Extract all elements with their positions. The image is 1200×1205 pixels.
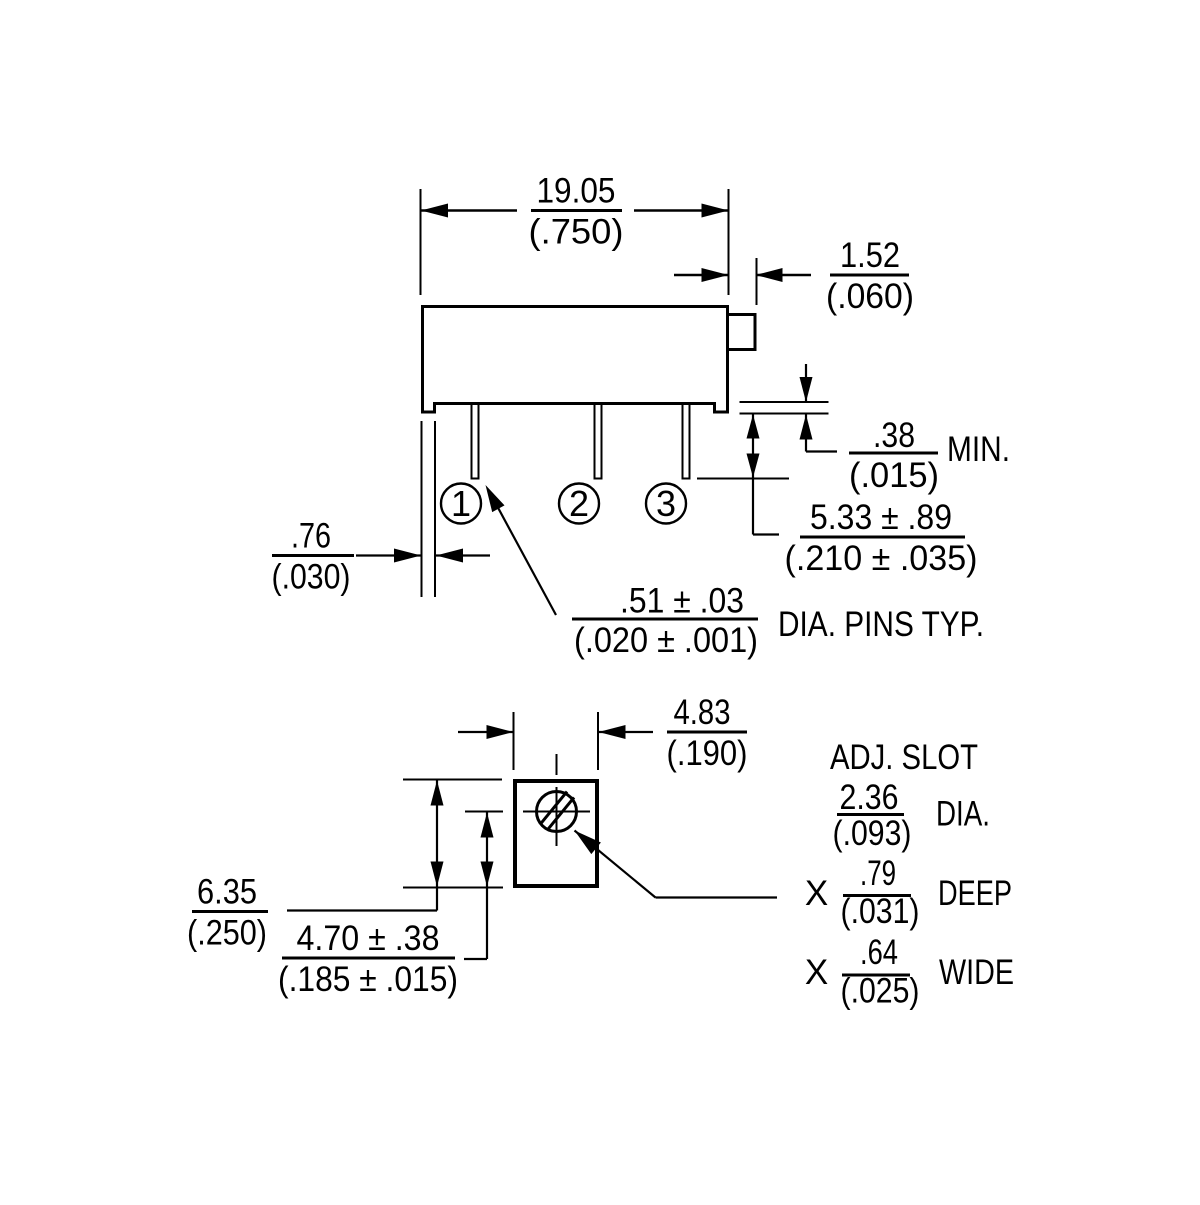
svg-text:3: 3	[656, 483, 676, 524]
svg-text:DEEP: DEEP	[938, 874, 1012, 913]
svg-text:X: X	[805, 953, 828, 992]
svg-text:WIDE: WIDE	[939, 953, 1014, 992]
svg-text:1: 1	[451, 483, 471, 524]
svg-text:1.52: 1.52	[840, 236, 900, 275]
svg-text:4.70 ± .38: 4.70 ± .38	[297, 919, 440, 958]
svg-text:(.250): (.250)	[187, 914, 267, 953]
svg-text:19.05: 19.05	[537, 172, 616, 211]
svg-text:.79: .79	[860, 854, 896, 893]
svg-text:2.36: 2.36	[840, 778, 899, 817]
svg-text:X: X	[805, 874, 828, 913]
svg-text:DIA. PINS TYP.: DIA. PINS TYP.	[778, 605, 984, 644]
svg-text:(.190): (.190)	[667, 734, 748, 773]
svg-text:(.025): (.025)	[841, 972, 920, 1011]
svg-text:5.33 ± .89: 5.33 ± .89	[810, 498, 952, 537]
svg-text:(.030): (.030)	[272, 558, 351, 597]
svg-text:.76: .76	[291, 517, 331, 556]
svg-text:ADJ. SLOT: ADJ. SLOT	[830, 738, 978, 777]
svg-text:.51 ± .03: .51 ± .03	[620, 582, 744, 621]
svg-text:.64: .64	[860, 933, 898, 972]
svg-text:(.060): (.060)	[826, 277, 914, 316]
svg-text:DIA.: DIA.	[936, 795, 990, 834]
svg-text:(.020 ± .001): (.020 ± .001)	[574, 621, 758, 660]
svg-text:2: 2	[569, 483, 589, 524]
svg-text:(.210 ± .035): (.210 ± .035)	[785, 539, 978, 578]
svg-text:(.750): (.750)	[529, 213, 624, 252]
svg-text:.38: .38	[873, 416, 915, 455]
svg-text:(.031): (.031)	[841, 892, 920, 931]
svg-text:4.83: 4.83	[674, 693, 731, 732]
svg-text:(.093): (.093)	[833, 814, 912, 853]
svg-text:6.35: 6.35	[197, 873, 257, 912]
svg-text:(.015): (.015)	[849, 456, 939, 495]
svg-text:(.185 ± .015): (.185 ± .015)	[278, 960, 458, 999]
svg-text:MIN.: MIN.	[947, 430, 1010, 469]
